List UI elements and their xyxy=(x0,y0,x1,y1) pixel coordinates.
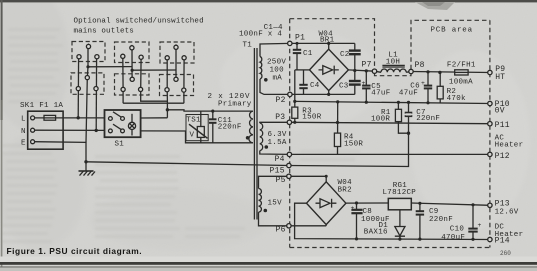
svg-text:150R: 150R xyxy=(302,114,321,122)
svg-text:1.5A: 1.5A xyxy=(268,139,287,147)
svg-text:100mA: 100mA xyxy=(449,79,473,87)
svg-text:P3: P3 xyxy=(275,113,285,122)
svg-text:470uF: 470uF xyxy=(441,234,465,242)
svg-text:P11: P11 xyxy=(495,121,510,130)
svg-text:250V: 250V xyxy=(267,59,286,67)
svg-text:PCB area: PCB area xyxy=(431,27,473,35)
svg-text:P8: P8 xyxy=(415,61,425,70)
svg-text:E: E xyxy=(21,140,26,148)
svg-text:47uF: 47uF xyxy=(399,89,418,97)
svg-text:P12: P12 xyxy=(495,152,510,161)
svg-text:TS1: TS1 xyxy=(186,117,201,125)
svg-text:BAX16: BAX16 xyxy=(364,228,388,236)
svg-text:150R: 150R xyxy=(344,140,363,148)
svg-text:220nF: 220nF xyxy=(218,123,242,131)
svg-text:260: 260 xyxy=(500,250,511,257)
svg-text:Primary: Primary xyxy=(218,101,252,109)
svg-text:C3: C3 xyxy=(339,83,349,91)
svg-text:C4: C4 xyxy=(310,82,320,90)
svg-text:P5: P5 xyxy=(276,176,286,185)
svg-text:+: + xyxy=(351,205,355,212)
svg-text:P2: P2 xyxy=(276,96,286,105)
svg-text:P4: P4 xyxy=(275,155,285,164)
svg-text:+: + xyxy=(362,80,366,87)
svg-text:12.6V: 12.6V xyxy=(495,209,519,217)
svg-text:C8: C8 xyxy=(363,208,373,216)
svg-text:N: N xyxy=(21,128,26,136)
svg-text:15V: 15V xyxy=(268,200,283,208)
svg-text:T1: T1 xyxy=(243,42,253,50)
svg-text:C2: C2 xyxy=(340,51,350,59)
svg-text:P6: P6 xyxy=(276,226,286,235)
svg-text:P13: P13 xyxy=(495,200,510,209)
svg-text:mains outlets: mains outlets xyxy=(74,28,134,36)
svg-text:V: V xyxy=(190,132,195,140)
svg-text:Optional switched/unswitched: Optional switched/unswitched xyxy=(74,18,204,26)
svg-text:Figure 1. PSU circuit diagram.: Figure 1. PSU circuit diagram. xyxy=(7,246,143,256)
svg-text:BR2: BR2 xyxy=(338,187,352,195)
svg-text:100: 100 xyxy=(270,66,285,74)
svg-text:C10: C10 xyxy=(450,226,465,234)
svg-text:470k: 470k xyxy=(447,95,466,103)
svg-text:220nF: 220nF xyxy=(416,115,440,123)
svg-text:100nF x 4: 100nF x 4 xyxy=(239,30,282,38)
svg-text:100R: 100R xyxy=(371,116,390,124)
svg-text:6.3V: 6.3V xyxy=(268,131,287,139)
svg-text:10H: 10H xyxy=(386,59,400,67)
svg-text:C9: C9 xyxy=(429,208,439,216)
svg-text:+: + xyxy=(478,222,482,229)
svg-text:Heater: Heater xyxy=(495,142,524,150)
svg-text:SK1 F1 1A: SK1 F1 1A xyxy=(20,102,63,110)
svg-text:P7: P7 xyxy=(362,61,372,70)
svg-text:F2/FH1: F2/FH1 xyxy=(447,62,476,70)
svg-text:+: + xyxy=(421,80,425,87)
svg-text:220nF: 220nF xyxy=(429,216,453,224)
svg-text:0V: 0V xyxy=(495,107,505,116)
svg-text:S1: S1 xyxy=(115,141,125,149)
svg-text:47uF: 47uF xyxy=(371,89,390,97)
svg-text:Heater: Heater xyxy=(495,231,524,239)
svg-text:HT: HT xyxy=(495,73,505,82)
svg-text:P1: P1 xyxy=(295,34,305,43)
svg-text:L7812CP: L7812CP xyxy=(383,189,417,197)
svg-text:P15: P15 xyxy=(270,166,285,175)
svg-text:mA: mA xyxy=(273,74,283,82)
svg-text:BR1: BR1 xyxy=(320,37,335,45)
svg-text:C1: C1 xyxy=(303,50,313,58)
svg-text:L: L xyxy=(21,116,26,124)
